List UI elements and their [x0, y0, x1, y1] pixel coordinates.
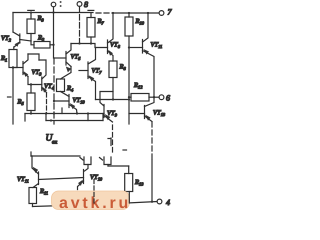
svg-text:6: 6 [166, 94, 170, 103]
svg-text:VT11: VT11 [17, 176, 29, 184]
terminal 1 (top middle) [51, 1, 61, 13]
transistor VT9 [100, 92, 118, 155]
transistor VT8 [108, 12, 121, 61]
wire R13 bottom stub [128, 192, 130, 204]
wire left rail below R1 [8, 66, 15, 124]
terminal 4 [157, 198, 170, 207]
resistor R13 [108, 166, 144, 192]
resistor R1 [0, 50, 17, 68]
svg-text:R10: R10 [135, 18, 145, 26]
transistor VT3 [13, 54, 42, 77]
wire VT3 collector to R2 node [28, 54, 39, 60]
terminal 7 (top right) [159, 8, 172, 17]
svg-text:7: 7 [168, 8, 173, 17]
svg-text:R12: R12 [133, 82, 143, 90]
svg-text:VT10: VT10 [73, 97, 86, 105]
svg-text:VT10: VT10 [90, 174, 103, 182]
wire left rail top [12, 13, 14, 33]
svg-text:VT13: VT13 [153, 110, 166, 118]
wire bottom rail [33, 201, 158, 207]
transistor VT13 [129, 97, 166, 201]
svg-text:R5: R5 [17, 99, 25, 107]
wire rail C y99.5 [96, 98, 131, 100]
wire top rail dashed middle [96, 12, 110, 14]
node bracket A [80, 157, 91, 171]
wire top rail right [112, 12, 159, 14]
svg-text:VT7: VT7 [92, 68, 103, 76]
svg-text:VT8: VT8 [110, 42, 121, 50]
svg-text:R7: R7 [97, 18, 105, 26]
resistor R8 [109, 61, 127, 78]
terminal 6 [159, 94, 170, 103]
transistor VT5 [54, 44, 81, 80]
transistor VT10 (upper) [53, 92, 86, 114]
svg-text:8: 8 [84, 0, 88, 9]
svg-text:4: 4 [166, 198, 170, 207]
transistor VT14 [17, 156, 84, 188]
svg-text:вх: вх [52, 140, 57, 146]
svg-text:R8: R8 [119, 64, 127, 72]
wire middle vertical from terminal 1 [53, 13, 56, 125]
transistor VT11 [128, 12, 162, 99]
transistor VT4 [28, 60, 55, 114]
wire rail A y113.5 [25, 112, 104, 114]
resistor R10 [125, 12, 145, 124]
svg-text:R1: R1 [0, 55, 7, 63]
transistor VT2 [1, 32, 31, 50]
svg-text:R2: R2 [37, 35, 45, 43]
svg-text:R3: R3 [37, 15, 45, 23]
svg-text:VT2: VT2 [1, 35, 12, 43]
resistor R4 [57, 79, 75, 93]
resistor R7 [87, 10, 105, 43]
svg-text:VT3: VT3 [32, 69, 43, 77]
svg-text:avtk.ru: avtk.ru [59, 195, 131, 212]
svg-text:VT5: VT5 [71, 54, 82, 62]
resistor R11 [29, 188, 48, 207]
svg-text:R13: R13 [134, 179, 144, 187]
wire node row y43.5 [71, 42, 108, 47]
svg-text:R11: R11 [39, 188, 48, 196]
resistor R2 [31, 35, 55, 49]
transistor VT10 (lower) [78, 170, 103, 190]
wire lower input rail [31, 152, 80, 156]
node bracket B [100, 157, 112, 166]
resistor R12 [129, 82, 159, 101]
wire R8 bottom [112, 78, 114, 100]
resistor R3 [27, 10, 45, 41]
wire rail B y120.5 [25, 108, 103, 122]
wire dashed emitter through watermark [93, 180, 95, 204]
svg-text:VT11: VT11 [151, 42, 163, 50]
svg-text:VT4: VT4 [44, 83, 55, 91]
label Uvx [46, 134, 58, 146]
terminal 8 (top, dashed feed) [77, 0, 88, 44]
svg-text:R4: R4 [66, 85, 74, 93]
wire top rail left [13, 12, 93, 14]
junction dot R12 left [128, 96, 130, 98]
resistor R5 [17, 83, 36, 113]
transistor VT7 [79, 48, 102, 100]
watermark avtk.ru [52, 191, 132, 212]
wire stub with tick (x111) [108, 138, 127, 150]
